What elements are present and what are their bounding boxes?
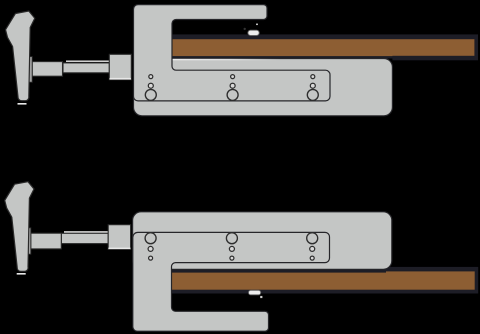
mounting plate (bottom diagram) [133,212,392,269]
clamp screw wide shaft (bottom diagram) [31,233,62,249]
screw washer flange (bottom diagram) [28,228,31,254]
clamp C-bracket body (top diagram) [134,5,331,101]
lever handle (bottom diagram) [5,182,34,275]
small dot left of pad [244,28,246,30]
thin dark table edge under gap (bottom diagram) [172,270,387,273]
screw washer flange (top diagram) [29,57,32,83]
screw pad foot on table (top diagram) [248,30,259,35]
white gap line under table bar [172,59,280,61]
screw pad foot on table (bottom diagram) [249,290,261,295]
screw hole group 1 (bottom diagram) [145,233,156,260]
screw hole group 2 (bottom diagram) [226,233,237,260]
clamp C-bracket body (bottom diagram) [133,232,330,331]
white speck above pad [256,23,258,25]
screw hole group 3 (bottom diagram) [307,233,318,260]
table top bar (bottom diagram) [172,267,479,294]
screw hole group 1 (top diagram) [145,75,156,101]
screw block nut (bottom diagram) [108,225,130,250]
lever handle (top diagram) [6,11,35,105]
screw hole group 2 (top diagram) [227,75,238,101]
small white mark right of pad (bottom diagram) [260,296,262,298]
table top bar (top diagram) [172,34,479,60]
clamp screw wide shaft (top diagram) [32,62,62,77]
mounting plate (top diagram) [134,59,393,116]
screw block nut (top diagram) [109,54,131,79]
screw hole group 3 (top diagram) [307,75,318,101]
clamp screw thin shaft (top diagram) [63,61,109,73]
clamp screw thin shaft (bottom diagram) [61,231,108,243]
